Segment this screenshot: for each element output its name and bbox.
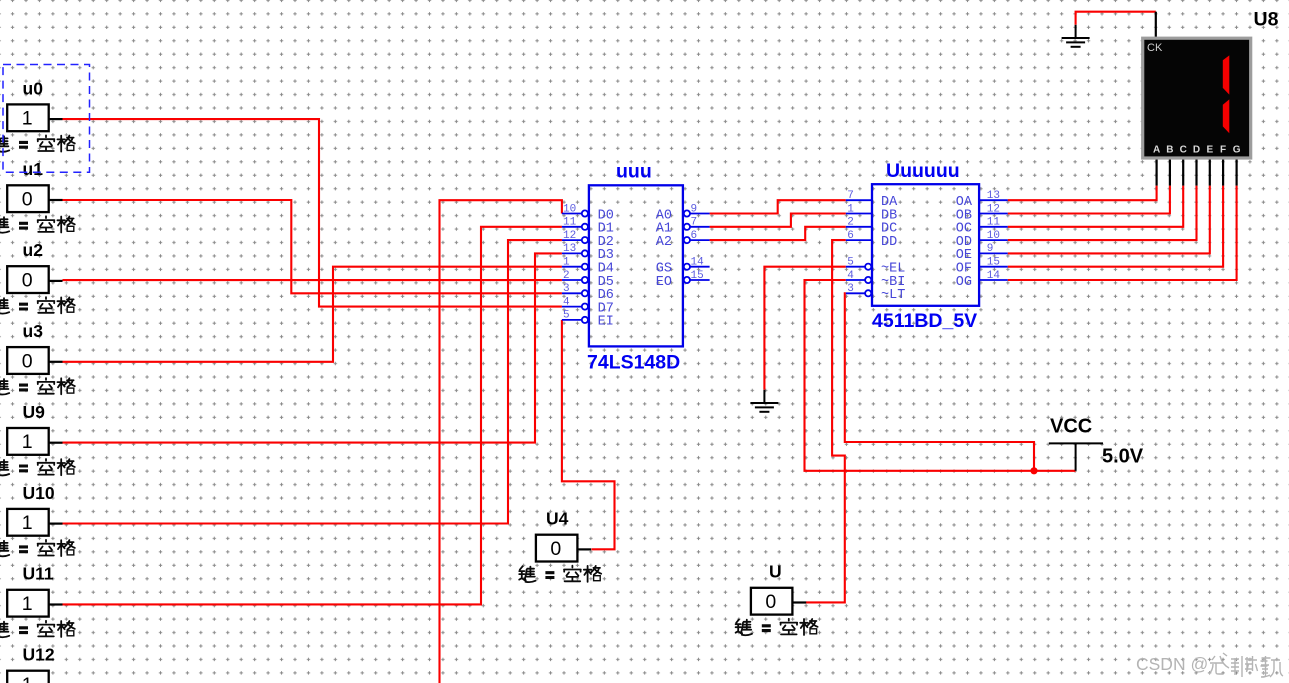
svg-text:1: 1: [22, 108, 33, 130]
svg-text:7: 7: [691, 217, 698, 229]
svg-text:10: 10: [987, 230, 1000, 242]
switch u0 box: [7, 104, 49, 131]
svg-text:E: E: [1206, 145, 1213, 156]
switch U10 stub: [49, 522, 63, 524]
svg-text:12: 12: [987, 203, 1000, 215]
svg-text:0: 0: [22, 189, 33, 211]
svg-text:1: 1: [22, 431, 33, 453]
switch U4 caption (key = space): [519, 566, 601, 582]
wire A0 to DA: [710, 200, 846, 213]
switch U9 box: [7, 428, 49, 455]
switch u1 caption (key = space): [0, 216, 75, 232]
watermark CJK doodles: [1209, 653, 1283, 677]
VCC power symbol: [1049, 443, 1103, 470]
wire OD to display D: [1008, 186, 1197, 241]
svg-text:10: 10: [563, 203, 576, 215]
display segment B (lit): [1223, 55, 1230, 94]
4511BD pin 4 (~BI) stub: [846, 279, 865, 281]
switch U11 caption (key = space): [0, 621, 75, 637]
svg-text:6: 6: [847, 230, 854, 242]
display pin F (black): [1222, 159, 1224, 186]
svg-text:15: 15: [987, 257, 1000, 269]
svg-text:4: 4: [847, 270, 854, 282]
svg-text:G: G: [1233, 145, 1241, 156]
4511BD pin 10 (OD) stub: [979, 239, 1008, 241]
svg-text:VCC: VCC: [1050, 416, 1092, 438]
svg-text:U11: U11: [23, 564, 54, 584]
display pin B (black): [1169, 159, 1171, 186]
74LS148D pin 5 (EI) stub: [562, 319, 582, 321]
svg-text:0: 0: [22, 350, 33, 372]
switch U11 stub: [49, 603, 63, 605]
wire A2 to DC: [710, 227, 846, 240]
switch u2 box: [7, 266, 49, 293]
svg-text:1: 1: [22, 593, 33, 615]
svg-text:5: 5: [847, 257, 854, 269]
svg-text:9: 9: [691, 203, 698, 215]
74LS148D pin 13 (D3) stub: [562, 252, 582, 254]
74LS148D pin 10 (D0) stub: [562, 213, 582, 215]
4511BD pin 1 (DB) stub: [846, 213, 872, 215]
wire OF to display F: [1008, 186, 1223, 267]
4511BD pin 13 (OA) stub: [979, 199, 1008, 201]
svg-text:1: 1: [22, 674, 33, 683]
74LS148D pin 3 (D6) stub: [562, 292, 582, 294]
wire u2 to D5: [63, 279, 562, 281]
svg-text:74LS148D: 74LS148D: [587, 352, 680, 374]
switch U9 stub: [49, 442, 63, 444]
4511BD pin 6 (DD) stub: [846, 239, 872, 241]
svg-text:11: 11: [987, 217, 1001, 229]
svg-text:U8: U8: [1254, 9, 1279, 31]
wire U11 to D1: [63, 227, 562, 605]
svg-text:DD: DD: [881, 235, 897, 250]
wire u0 to D7: [63, 119, 562, 307]
svg-text:7: 7: [847, 190, 854, 202]
wire OC to display C: [1008, 186, 1183, 227]
74LS148D pin 12 (D2) stub: [562, 239, 582, 241]
wire ~BI to VCC: [805, 280, 1076, 471]
chip U2 4511BD_5V body: [872, 184, 979, 306]
wire OG to display G: [1008, 186, 1237, 280]
switch U9 caption (key = space): [0, 459, 75, 475]
switch U4 box: [536, 535, 578, 562]
switch U11 box: [7, 590, 49, 617]
switch u0 caption (key = space): [0, 135, 75, 151]
switch U10 caption (key = space): [0, 540, 75, 556]
4511BD pin 9 (OE) stub: [979, 252, 1008, 254]
74LS148D pin 15 (EO) stub: [690, 279, 710, 281]
wire A1 to DB: [710, 214, 846, 227]
svg-text:D: D: [1193, 145, 1200, 156]
wire U10 to D2: [63, 240, 562, 523]
svg-text:B: B: [1166, 145, 1173, 156]
svg-text:5: 5: [563, 310, 570, 322]
switch u3 box: [7, 347, 49, 374]
CK pin (black): [1155, 12, 1157, 38]
switch u3 caption (key = space): [0, 378, 75, 394]
svg-text:OG: OG: [956, 275, 972, 290]
svg-text:14: 14: [691, 257, 705, 269]
op-chip U1 74LS148D body: [589, 185, 683, 346]
svg-text:11: 11: [563, 217, 577, 229]
junction on VCC rail: [1030, 467, 1037, 474]
74LS148D pin 6 (A2) stub: [690, 239, 710, 241]
svg-text:U9: U9: [23, 402, 46, 422]
wire u3 to D4: [63, 267, 562, 362]
switch u3 stub: [49, 361, 63, 363]
74LS148D pin 9 (A0) stub: [690, 213, 710, 215]
74LS148D pin 11 (D1) stub: [562, 226, 582, 228]
svg-text:EO: EO: [656, 275, 672, 290]
svg-text:1: 1: [563, 257, 570, 269]
display U8 frame: [1143, 38, 1251, 158]
4511BD pin 15 (OF) stub: [979, 266, 1008, 268]
svg-text:CK: CK: [1147, 42, 1163, 54]
svg-text:4: 4: [563, 296, 570, 308]
wire u1 to D6: [63, 200, 562, 293]
switch U4 stub: [577, 548, 591, 550]
switch U stub: [792, 601, 806, 603]
switch u2 caption (key = space): [0, 297, 75, 313]
wire EI to U4: [562, 320, 615, 549]
svg-text:13: 13: [987, 190, 1000, 202]
wire ~LT to VCC: [845, 293, 1034, 471]
svg-text:6: 6: [691, 230, 698, 242]
display segment C (lit): [1223, 99, 1230, 133]
switch U box: [751, 588, 793, 615]
svg-text:~LT: ~LT: [881, 288, 905, 303]
svg-text:U4: U4: [546, 509, 569, 529]
svg-text:1: 1: [847, 203, 854, 215]
74LS148D pin 7 (A1) stub: [690, 226, 710, 228]
switch U10 box: [7, 509, 49, 536]
svg-text:C: C: [1180, 145, 1187, 156]
4511BD pin 3 (~LT) stub: [846, 292, 865, 294]
4511BD pin 12 (OB) stub: [979, 213, 1008, 215]
wire OE to display E: [1008, 186, 1210, 254]
svg-text:F: F: [1220, 145, 1226, 156]
svg-text:3: 3: [847, 283, 854, 295]
switch u0 stub: [49, 118, 63, 120]
wire U9 to D3: [63, 253, 562, 442]
svg-text:U10: U10: [23, 483, 55, 503]
display pin C (black): [1182, 159, 1184, 186]
svg-text:0: 0: [765, 591, 776, 613]
74LS148D pin 2 (D5) stub: [562, 279, 582, 281]
svg-text:uuu: uuu: [616, 161, 652, 183]
wire OA to display A: [1008, 186, 1157, 201]
svg-text:u3: u3: [23, 321, 44, 341]
4511BD pin 5 (~EL) stub: [846, 266, 865, 268]
svg-text:5.0V: 5.0V: [1102, 446, 1144, 468]
svg-text:0: 0: [550, 538, 561, 560]
svg-text:12: 12: [563, 230, 576, 242]
svg-text:2: 2: [563, 270, 570, 282]
svg-text:U12: U12: [23, 645, 55, 665]
svg-text:2: 2: [847, 217, 854, 229]
4511BD pin 14 (OG) stub: [979, 279, 1008, 281]
74LS148D pin 14 (GS) stub: [690, 266, 710, 268]
svg-text:U: U: [769, 562, 782, 582]
svg-text:3: 3: [563, 283, 570, 295]
svg-text:A2: A2: [656, 235, 672, 250]
74LS148D pin 1 (D4) stub: [562, 266, 582, 268]
svg-text:A: A: [1153, 145, 1160, 156]
switch u1 box: [7, 185, 49, 212]
switch U caption (key = space): [736, 619, 818, 635]
svg-text:u1: u1: [23, 159, 44, 179]
switch U12 box: [7, 671, 49, 683]
svg-text:14: 14: [987, 270, 1001, 282]
display pin E (black): [1209, 159, 1211, 186]
svg-text:9: 9: [987, 243, 994, 255]
display pin G (black): [1235, 159, 1237, 186]
wire U to DD: [806, 240, 846, 602]
svg-text:EI: EI: [598, 315, 614, 330]
display pin D (black): [1195, 159, 1197, 186]
svg-text:15: 15: [691, 270, 704, 282]
ground (middle): [750, 390, 778, 412]
svg-text:13: 13: [563, 243, 576, 255]
switch u1 stub: [49, 199, 63, 201]
74LS148D pin 4 (D7) stub: [562, 306, 582, 308]
4511BD pin 11 (OC) stub: [979, 226, 1008, 228]
selection dashed box around u0: [3, 65, 90, 173]
4511BD pin 2 (DC) stub: [846, 226, 872, 228]
svg-text:0: 0: [22, 269, 33, 291]
svg-text:1: 1: [22, 512, 33, 534]
switch u2 stub: [49, 280, 63, 282]
svg-text:u2: u2: [23, 240, 44, 260]
wire ~EL to ground: [764, 267, 845, 390]
wire U12 to D0: [440, 200, 562, 683]
4511BD pin 7 (DA) stub: [846, 199, 872, 201]
svg-text:Uuuuuu: Uuuuuu: [886, 160, 960, 182]
svg-text:CSDN @: CSDN @: [1136, 654, 1208, 674]
display pin A (black): [1155, 159, 1157, 186]
ground (top, near display): [1062, 25, 1090, 47]
wire CK to ground: [1076, 12, 1156, 25]
svg-text:4511BD_5V: 4511BD_5V: [872, 310, 977, 332]
wire OB to display B: [1008, 186, 1170, 214]
svg-text:u0: u0: [23, 78, 44, 98]
